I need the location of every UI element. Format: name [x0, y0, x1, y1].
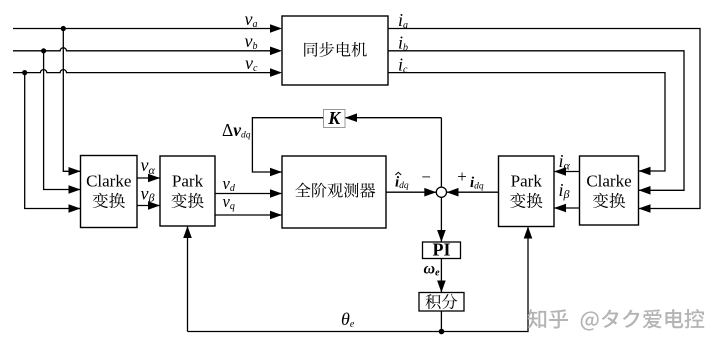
svg-text:Clarke: Clarke — [586, 172, 631, 191]
svg-text:Park: Park — [511, 172, 543, 191]
svg-text:−: − — [421, 167, 431, 186]
svg-text:PI: PI — [433, 239, 451, 259]
svg-text:Park: Park — [172, 172, 204, 191]
svg-text:+: + — [457, 167, 467, 186]
svg-text:Clarke: Clarke — [86, 172, 131, 191]
svg-text:K: K — [327, 108, 342, 128]
